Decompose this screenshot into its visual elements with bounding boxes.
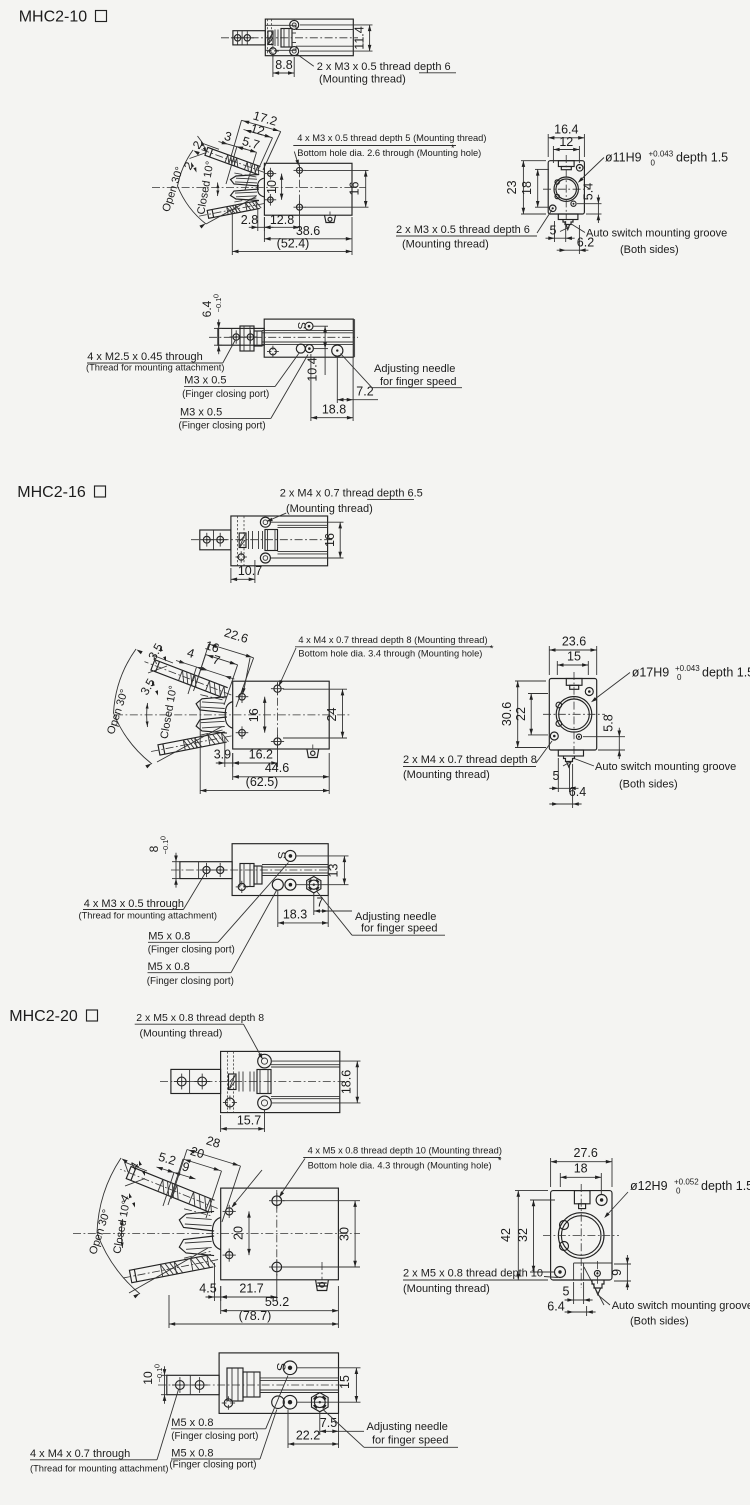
- svg-text:12: 12: [559, 135, 573, 149]
- bottom view MHC2-20 port circle open: [272, 1396, 285, 1409]
- front view MHC2-10 open phantom tip line: [203, 144, 219, 150]
- svg-text:3: 3: [223, 129, 234, 144]
- dimension 9 sv3: [614, 1263, 631, 1265]
- dimension 18.8: [310, 354, 312, 421]
- svg-text:3.9: 3.9: [214, 748, 231, 762]
- side view MHC2-20 bore circle: [558, 1213, 604, 1259]
- svg-text:*: *: [490, 644, 494, 654]
- angled extension lines: [226, 147, 237, 184]
- front view MHC2-16 jaw hole lower: [239, 729, 246, 736]
- dimension 15.7: [220, 1115, 222, 1132]
- top view MHC2-20 attachment hole filled: [225, 1098, 234, 1107]
- side view MHC2-16 centerlines: [573, 672, 575, 756]
- svg-text:18: 18: [574, 1162, 588, 1176]
- dimension 22.2: [287, 1410, 289, 1449]
- bottom view MHC2-10 attachment hole filled: [270, 348, 277, 355]
- svg-text:(Finger closing port): (Finger closing port): [148, 945, 235, 956]
- front view MHC2-20 upper finger open: [118, 1163, 220, 1214]
- front view MHC2-10 open position line lower: [206, 197, 256, 225]
- front view MHC2-20 closed angle arc: [121, 1219, 122, 1248]
- side view MHC2-20 groove block: [574, 1262, 612, 1264]
- svg-text:0: 0: [651, 159, 656, 168]
- svg-text:16: 16: [323, 533, 337, 547]
- dimension 13: [296, 855, 349, 857]
- side view MHC2-10 circle top right: [576, 165, 583, 172]
- bottom view MHC2-16 centerline: [171, 869, 333, 871]
- front view MHC2-20 open position line lower: [129, 1248, 208, 1293]
- dimension 6.4 sv2: [572, 764, 574, 808]
- dimension 22: [528, 693, 548, 695]
- top view MHC2-10 bar hole right: [244, 35, 250, 41]
- bottom view MHC2-16 bar holes: [203, 866, 210, 873]
- bottom view MHC2-20 S port circle: [283, 1361, 297, 1375]
- top view MHC2-10 centerline: [221, 37, 358, 39]
- top view MHC2-20 mounting hole upper: [258, 1054, 272, 1068]
- svg-text:Bottom hole dia. 3.4 through (: Bottom hole dia. 3.4 through (Mounting h…: [298, 649, 482, 659]
- svg-text:(Both sides): (Both sides): [630, 1316, 689, 1328]
- svg-text:(Mounting thread): (Mounting thread): [403, 1283, 490, 1295]
- svg-text:Open 30°: Open 30°: [87, 1208, 113, 1256]
- side view MHC2-10 top slot: [558, 161, 574, 167]
- svg-text:(78.7): (78.7): [239, 1309, 272, 1323]
- svg-text:M5 x 0.8: M5 x 0.8: [148, 931, 190, 943]
- side view MHC2-20 circle top right: [596, 1195, 607, 1206]
- dimension 5.4: [577, 203, 602, 205]
- bottom view MHC2-20 centerline: [158, 1384, 343, 1386]
- side view MHC2-16 circle top right: [585, 688, 593, 696]
- dimension 55.2: [220, 1286, 222, 1314]
- front view MHC2-16 bottom port: [307, 749, 319, 758]
- svg-text:10.7: 10.7: [238, 564, 262, 578]
- front view MHC2-10 mounting hole upper: [297, 167, 303, 173]
- dimension 23: [521, 160, 546, 162]
- svg-text:(Thread for mounting attachmen: (Thread for mounting attachment): [86, 363, 225, 373]
- top view MHC2-16 mounting hole upper: [260, 517, 270, 527]
- svg-text:*: *: [498, 1156, 502, 1166]
- front view MHC2-20 jaw outline: [179, 1236, 214, 1256]
- svg-text:S: S: [274, 1363, 288, 1371]
- svg-text:20: 20: [231, 1226, 245, 1240]
- svg-text:7.5: 7.5: [320, 1416, 337, 1430]
- front view MHC2-20 body: [221, 1188, 339, 1280]
- bottom view MHC2-16 piston detail: [240, 864, 254, 887]
- svg-text:depth 1.5: depth 1.5: [701, 1179, 750, 1193]
- svg-text:5: 5: [550, 224, 557, 238]
- dimension 16 fv2 jaw: [264, 697, 266, 733]
- svg-text:3.5: 3.5: [138, 676, 159, 698]
- svg-text:8.8: 8.8: [275, 58, 292, 72]
- svg-text:20: 20: [188, 1144, 205, 1161]
- dimension 6.4 sv3: [586, 1306, 588, 1316]
- dimension 12 top: [552, 146, 554, 163]
- front view MHC2-10 body: [264, 163, 352, 215]
- svg-text:0: 0: [212, 294, 221, 298]
- dimension 10: [281, 174, 283, 200]
- bottom view MHC2-10 port circle dotted: [305, 345, 313, 353]
- bottom view MHC2-20 body: [219, 1353, 338, 1414]
- front view MHC2-20 open phantom tip line: [125, 1162, 148, 1171]
- top view MHC2-16 centerline: [191, 539, 333, 541]
- svg-text:23.6: 23.6: [562, 635, 586, 649]
- side view MHC2-16 body: [549, 679, 596, 751]
- svg-text:55.2: 55.2: [265, 1295, 289, 1309]
- front view MHC2-10 bottom port: [325, 215, 336, 222]
- front view MHC2-10 lower finger closed: [198, 199, 265, 220]
- svg-text:4 x M3 x 0.5 through: 4 x M3 x 0.5 through: [84, 898, 184, 910]
- svg-text:M3 x 0.5: M3 x 0.5: [180, 407, 222, 419]
- dimension 16.4: [547, 134, 549, 157]
- dimension 18 sv3: [559, 1173, 561, 1187]
- svg-text:Auto switch mounting groove: Auto switch mounting groove: [595, 761, 736, 773]
- svg-text:MHC2-20: MHC2-20: [9, 1008, 78, 1025]
- top view MHC2-16 finger bar: [200, 530, 231, 550]
- svg-text:2.8: 2.8: [241, 213, 258, 227]
- angled extension lines fv2: [196, 644, 209, 684]
- top view MHC2-10 piston detail: [265, 24, 296, 26]
- front view MHC2-20 jaw hole upper: [226, 1208, 233, 1215]
- svg-text:13: 13: [327, 864, 341, 878]
- side view MHC2-16 bottom groove: [558, 750, 583, 756]
- svg-text:10: 10: [141, 1371, 155, 1385]
- svg-text:(Thread for mounting attachmen: (Thread for mounting attachment): [30, 1464, 169, 1474]
- bottom view MHC2-16 body: [232, 844, 328, 896]
- svg-text:15: 15: [338, 1375, 352, 1389]
- svg-text:−0.1: −0.1: [161, 840, 170, 855]
- front view MHC2-16 open position line lower: [157, 727, 222, 763]
- svg-text:depth 1.5: depth 1.5: [676, 151, 728, 165]
- svg-text:9: 9: [610, 1269, 624, 1276]
- side view MHC2-16 small circle bottom: [576, 734, 581, 739]
- dimension 24: [283, 688, 347, 690]
- svg-text:10: 10: [265, 180, 279, 194]
- dimension 30.6: [515, 680, 546, 682]
- svg-text:(52.4): (52.4): [277, 237, 310, 251]
- front view MHC2-20 centerline horizontal: [73, 1233, 360, 1235]
- svg-text:2 x M4 x 0.7 thread depth 8: 2 x M4 x 0.7 thread depth 8: [403, 754, 537, 766]
- front view MHC2-10 jaw hole lower: [268, 197, 274, 203]
- svg-text:15.7: 15.7: [237, 1113, 261, 1127]
- bottom view MHC2-20 bar holes: [176, 1381, 185, 1390]
- dimension 44.6: [232, 753, 234, 780]
- dimension 23.6: [548, 646, 550, 675]
- svg-text:16: 16: [247, 708, 261, 722]
- dimension 18.6: [272, 1060, 361, 1062]
- front view MHC2-16 mounting hole upper: [274, 685, 281, 692]
- svg-text:Auto switch mounting groove: Auto switch mounting groove: [612, 1300, 750, 1312]
- front view MHC2-10 jaw outline: [231, 189, 260, 201]
- svg-text:22.2: 22.2: [296, 1429, 320, 1443]
- side view MHC2-10 centerlines: [565, 155, 567, 219]
- svg-text:0: 0: [676, 1187, 681, 1196]
- side view MHC2-16 circle bottom left: [550, 732, 558, 740]
- dimension 20 fv3 jaw: [248, 1211, 250, 1255]
- angled dimension 5.2: [157, 1167, 175, 1173]
- side view MHC2-20 top slot: [574, 1191, 590, 1204]
- svg-text:ø11H9: ø11H9: [605, 151, 642, 165]
- bottom view MHC2-10 piston detail: [240, 326, 254, 351]
- svg-text:(Mounting thread): (Mounting thread): [403, 769, 490, 781]
- top view MHC2-16 thread hatch: [237, 516, 239, 566]
- svg-text:12.8: 12.8: [270, 213, 294, 227]
- svg-text:(Finger closing port): (Finger closing port): [169, 1460, 256, 1471]
- bottom view MHC2-10 port circle open: [296, 344, 305, 353]
- svg-text:Closed 10°: Closed 10°: [111, 1200, 132, 1255]
- dimension 7 bv2: [313, 894, 315, 916]
- side view MHC2-10 bore circle: [554, 177, 578, 201]
- front view MHC2-16 jaw outline: [196, 717, 227, 733]
- svg-text:4 x M4 x 0.7 through: 4 x M4 x 0.7 through: [30, 1448, 130, 1460]
- front view MHC2-10 centerline horizontal: [152, 187, 366, 189]
- svg-text:+0.043: +0.043: [675, 664, 700, 673]
- bottom view MHC2-10 finger bar: [218, 328, 264, 345]
- svg-text:(Mounting thread): (Mounting thread): [286, 503, 373, 515]
- front view MHC2-20 jaw hole lower: [226, 1252, 233, 1259]
- svg-text:4.5: 4.5: [199, 1282, 216, 1296]
- svg-text:(Finger closing port): (Finger closing port): [182, 389, 269, 400]
- top view MHC2-10 attachment hole filled: [270, 48, 277, 55]
- dimension 7.5: [319, 1412, 321, 1435]
- svg-text:+0.043: +0.043: [649, 150, 674, 159]
- svg-text:(Finger closing port): (Finger closing port): [171, 1431, 258, 1442]
- side view MHC2-10 body: [548, 161, 584, 214]
- svg-text:(62.5): (62.5): [246, 775, 279, 789]
- svg-text:0: 0: [677, 673, 682, 682]
- bottom view MHC2-16 attachment hole filled: [238, 883, 245, 890]
- dimension 38.6: [263, 217, 265, 242]
- svg-text:4 x M3 x 0.5 thread depth 5 (M: 4 x M3 x 0.5 thread depth 5 (Mounting th…: [297, 133, 486, 143]
- svg-text:22.6: 22.6: [222, 626, 249, 647]
- front view MHC2-10 open arc 30deg: [178, 150, 207, 224]
- angled dimension 9: [174, 1173, 196, 1180]
- svg-text:depth 1.5: depth 1.5: [702, 666, 750, 680]
- dimension 5 sv3: [573, 1282, 575, 1304]
- svg-text:MHC2-10: MHC2-10: [19, 9, 88, 26]
- side view MHC2-10 bottom groove: [558, 214, 578, 220]
- svg-text:5: 5: [553, 769, 560, 783]
- svg-text:22: 22: [514, 707, 528, 721]
- side view MHC2-16 bore circle: [556, 697, 592, 733]
- front view MHC2-16 open phantom tip line: [154, 656, 174, 664]
- svg-text:2 x M4 x 0.7 thread depth 6.5: 2 x M4 x 0.7 thread depth 6.5: [280, 488, 423, 500]
- svg-text:Adjusting needle: Adjusting needle: [367, 1421, 448, 1433]
- bottom view MHC2-20 adjusting needle: [312, 1393, 329, 1412]
- svg-text:Open 30°: Open 30°: [160, 165, 186, 213]
- svg-text:10.4: 10.4: [306, 357, 320, 381]
- bottom view MHC2-16 finger bar: [180, 862, 232, 879]
- front view MHC2-10 jaw hole upper: [268, 171, 274, 177]
- svg-text:4 x M2.5 x 0.45 through: 4 x M2.5 x 0.45 through: [87, 351, 203, 363]
- side view MHC2-16 top slot: [566, 679, 582, 686]
- svg-text:Open 30°: Open 30°: [105, 688, 131, 736]
- angled dimension 17.2: [242, 120, 281, 131]
- bottom view MHC2-16 adjusting needle: [307, 877, 321, 893]
- dimension 18.3: [277, 891, 279, 928]
- svg-text:28: 28: [204, 1133, 221, 1150]
- svg-text:18.8: 18.8: [322, 403, 346, 417]
- svg-text:18.3: 18.3: [283, 908, 307, 922]
- svg-text:5.8: 5.8: [602, 714, 616, 731]
- front view MHC2-16 upper finger open: [143, 656, 234, 700]
- svg-text:Adjusting needle: Adjusting needle: [374, 363, 455, 375]
- dimension 5 bottom: [554, 221, 556, 242]
- svg-text:MHC2-16: MHC2-16: [17, 484, 86, 501]
- dimension 5 bottom sv2: [557, 758, 559, 792]
- svg-text:2 x M5 x 0.8 thread depth 8: 2 x M5 x 0.8 thread depth 8: [136, 1012, 264, 1024]
- svg-text:6.4: 6.4: [547, 1300, 564, 1314]
- dimension 16 top view: [271, 521, 344, 523]
- bottom view MHC2-16 port circle open: [272, 879, 283, 890]
- svg-text:*: *: [451, 143, 455, 153]
- svg-text:30: 30: [338, 1227, 352, 1241]
- svg-text:2 x M3 x 0.5 thread depth 6: 2 x M3 x 0.5 thread depth 6: [396, 224, 530, 236]
- top view MHC2-20 mounting hole lower: [258, 1096, 272, 1110]
- top view MHC2-10 mounting hole upper: [290, 20, 299, 29]
- front view MHC2-20 bottom port: [316, 1280, 329, 1291]
- svg-text:M5 x 0.8: M5 x 0.8: [148, 961, 190, 973]
- angled dimension 16 fv2: [206, 655, 238, 665]
- top view MHC2-10 body: [265, 19, 353, 56]
- dimension 10.7: [230, 568, 232, 583]
- dimension 2.8 and 12.8: [257, 208, 259, 231]
- svg-text:−0.1: −0.1: [214, 298, 223, 313]
- top view MHC2-10 finger bar: [233, 31, 265, 45]
- dimension 7.2: [336, 357, 338, 404]
- side view MHC2-20 circle bottom left: [555, 1267, 566, 1278]
- svg-text:Adjusting needle: Adjusting needle: [355, 911, 436, 923]
- bottom view MHC2-10 adjusting needle: [332, 345, 343, 356]
- bottom view MHC2-20 attachment hole filled: [224, 1399, 232, 1407]
- svg-text:21.7: 21.7: [239, 1282, 263, 1296]
- svg-text:Bottom hole dia. 4.3 through (: Bottom hole dia. 4.3 through (Mounting h…: [308, 1161, 492, 1171]
- angled dimension 5.7: [237, 147, 257, 153]
- svg-text:32: 32: [516, 1228, 530, 1242]
- top view MHC2-10 thread hatch: [267, 19, 269, 56]
- svg-text:for finger speed: for finger speed: [380, 376, 456, 388]
- dimension 52.4: [231, 210, 233, 255]
- top view MHC2-10 bar hole left: [234, 35, 240, 41]
- front view MHC2-16 closed angle arc: [146, 703, 149, 727]
- dimension 78.7: [168, 1295, 170, 1328]
- front view MHC2-16 mounting hole lower: [274, 738, 281, 745]
- dimension 8.8: [272, 56, 274, 77]
- front view MHC2-20 centerline vertical: [276, 1190, 278, 1277]
- bottom view MHC2-10 centerline: [209, 336, 358, 338]
- bottom view MHC2-16 S port circle: [285, 850, 296, 861]
- top view MHC2-16 body: [231, 516, 328, 566]
- svg-text:16.2: 16.2: [249, 748, 273, 762]
- svg-text:M5 x 0.8: M5 x 0.8: [171, 1417, 213, 1429]
- svg-text:(Both sides): (Both sides): [619, 778, 678, 790]
- front view MHC2-10 mounting hole lower: [297, 204, 303, 210]
- svg-text:15: 15: [567, 649, 581, 663]
- top view MHC2-16 mounting hole lower: [260, 553, 270, 563]
- svg-text:8: 8: [147, 845, 161, 852]
- front view MHC2-16 centerline vertical: [277, 683, 279, 747]
- svg-text:6.4: 6.4: [200, 300, 214, 317]
- dimension 16 right: [305, 169, 369, 171]
- bottom view MHC2-20 piston detail: [227, 1368, 243, 1401]
- top view MHC2-20 finger bar: [171, 1069, 221, 1093]
- svg-text:2 x M5 x 0.8 thread depth 10: 2 x M5 x 0.8 thread depth 10: [403, 1268, 543, 1280]
- bottom view MHC2-10 bar holes: [233, 334, 239, 340]
- dimension 27.6: [550, 1158, 552, 1187]
- top view MHC2-16 bar holes: [203, 536, 210, 543]
- svg-text:24: 24: [325, 708, 339, 722]
- svg-text:ø12H9: ø12H9: [630, 1179, 668, 1193]
- dimension 11.4: [300, 24, 373, 26]
- angled extension lines fv3: [171, 1150, 187, 1200]
- svg-text:(Both sides): (Both sides): [620, 244, 679, 256]
- svg-text:7: 7: [211, 652, 222, 667]
- dimension 6.2: [578, 225, 580, 254]
- svg-text:2 x M3 x 0.5 thread depth 6: 2 x M3 x 0.5 thread depth 6: [317, 61, 451, 73]
- front view MHC2-20 open arc 30deg: [97, 1158, 140, 1294]
- dimension 4.5 and 21.7: [214, 1263, 216, 1301]
- side view MHC2-20 thread tail: [592, 1280, 604, 1288]
- bottom view MHC2-20 port circle dotted: [283, 1395, 297, 1409]
- top view MHC2-20 centerline: [160, 1081, 345, 1083]
- front view MHC2-16 centerline horizontal: [115, 714, 351, 716]
- svg-text:27.6: 27.6: [574, 1146, 598, 1160]
- svg-text:6.4: 6.4: [569, 785, 586, 799]
- top view MHC2-16 piston detail: [239, 533, 246, 548]
- top view MHC2-20 bar holes: [177, 1077, 186, 1086]
- svg-text:(Thread for mounting attachmen: (Thread for mounting attachment): [79, 911, 218, 921]
- front view MHC2-10 closed angle arc: [217, 183, 220, 197]
- top view MHC2-20 thread hatch: [227, 1051, 229, 1112]
- svg-text:4 x M4 x 0.7 thread depth 8 (M: 4 x M4 x 0.7 thread depth 8 (Mounting th…: [298, 635, 487, 645]
- side view MHC2-10 circle bottom left: [549, 205, 556, 212]
- svg-text:5: 5: [563, 1285, 570, 1299]
- svg-text:Auto switch mounting groove: Auto switch mounting groove: [586, 228, 727, 240]
- front view MHC2-10 centerline vertical: [299, 165, 301, 212]
- dimension 5.8: [583, 736, 625, 738]
- svg-text:0: 0: [159, 836, 168, 840]
- angled dimension 7: [208, 671, 225, 677]
- svg-text:5.2: 5.2: [157, 1150, 178, 1168]
- top view MHC2-20 piston detail: [229, 1074, 237, 1090]
- front view MHC2-16 jaw hole upper: [239, 693, 246, 700]
- angled dimension 20 fv3: [183, 1159, 222, 1171]
- svg-text:M5 x 0.8: M5 x 0.8: [171, 1447, 213, 1459]
- svg-text:23: 23: [505, 180, 519, 194]
- svg-text:44.6: 44.6: [265, 761, 289, 775]
- svg-text:30.6: 30.6: [500, 702, 514, 726]
- label 2 x M3 x 0.5 thread depth 6: [297, 54, 314, 66]
- svg-text:(Finger closing port): (Finger closing port): [179, 421, 266, 432]
- svg-text:M3 x 0.5: M3 x 0.5: [184, 375, 226, 387]
- top view MHC2-20 body: [221, 1051, 340, 1112]
- side view MHC2-10 small circle bottom: [571, 201, 576, 206]
- angled dimension 4: [186, 664, 197, 668]
- front view MHC2-20 lower finger closed: [121, 1253, 220, 1284]
- svg-text:+0.052: +0.052: [674, 1178, 699, 1187]
- dimension 15 top: [556, 661, 558, 675]
- dimension 15 bv3: [297, 1367, 361, 1369]
- dimension 18: [535, 168, 549, 170]
- svg-text:for finger speed: for finger speed: [361, 923, 437, 935]
- side view MHC2-20 body: [551, 1191, 612, 1280]
- svg-text:(Mounting thread): (Mounting thread): [402, 239, 489, 251]
- top view MHC2-10 mounting hole lower: [290, 47, 299, 56]
- dimension 10.4: [313, 325, 328, 327]
- svg-text:16: 16: [348, 182, 362, 196]
- svg-text:ø17H9: ø17H9: [632, 666, 670, 680]
- svg-text:(Mounting thread): (Mounting thread): [140, 1028, 223, 1040]
- bottom view MHC2-20 finger bar: [167, 1375, 219, 1394]
- angled dimension 12: [244, 130, 273, 138]
- svg-text:(Mounting thread): (Mounting thread): [319, 74, 406, 86]
